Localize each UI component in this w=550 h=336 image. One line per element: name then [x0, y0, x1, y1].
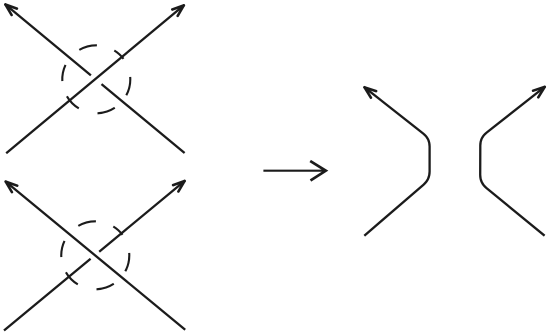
dashed circle around top crossing: [62, 45, 130, 113]
wire: bottom crossing under-strand lower segment (from lower-left): [4, 259, 91, 331]
wire: top crossing over-strand (lower-left to upper-right): [6, 5, 184, 153]
wire: top crossing under-strand upper segment (arrow end, upper-left): [5, 5, 91, 76]
dashed circle around bottom crossing: [61, 221, 129, 289]
arrowhead of implication arrow (open chevron): [310, 161, 326, 181]
arrowhead of top crossing under-strand: [5, 5, 17, 16]
arrowhead of smoothing right strand: [533, 87, 545, 97]
wire: bottom crossing under-strand upper segment (arrow end, upper-right): [99, 181, 184, 252]
arrowhead of smoothing left strand: [365, 87, 377, 97]
arrowhead of top crossing over-strand: [172, 5, 184, 16]
wire: bottom crossing over-strand (upper-left arrow to lower-right): [6, 182, 186, 330]
wire: smoothing left strand: [364, 87, 429, 235]
arrowhead of bottom crossing over-strand: [6, 182, 18, 193]
arrowhead of bottom crossing under-strand: [173, 181, 185, 192]
wire: top crossing under-strand lower segment (to lower-right): [102, 84, 185, 153]
wire: implication arrow shaft: [263, 170, 324, 172]
wire: smoothing right strand: [480, 87, 545, 236]
